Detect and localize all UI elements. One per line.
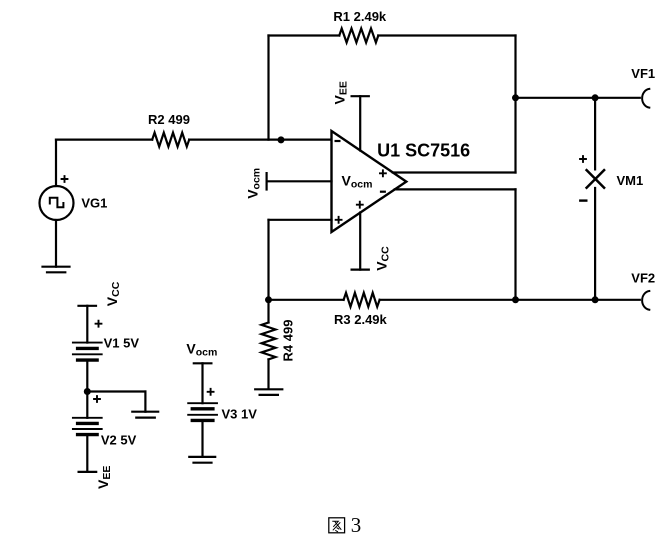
svg-text:R4 499: R4 499 xyxy=(280,320,295,362)
svg-text:VF1: VF1 xyxy=(631,66,655,81)
svg-text:VF2: VF2 xyxy=(631,270,655,285)
wire V3 top stem xyxy=(201,363,203,403)
resistor R4 xyxy=(262,323,276,360)
minus output xyxy=(380,191,386,193)
wire VM1 upper xyxy=(594,98,596,170)
wire noninverting input horizontal xyxy=(269,219,332,221)
svg-text:R1 2.49k: R1 2.49k xyxy=(333,9,387,24)
svg-text:V1 5V: V1 5V xyxy=(104,335,140,350)
svg-text:VG1: VG1 xyxy=(81,196,107,211)
svg-text:V2 5V: V2 5V xyxy=(101,433,137,448)
ground below V3 xyxy=(189,456,215,458)
wire left vertical to R1 xyxy=(267,36,269,140)
power rail Vocm bar of V3 xyxy=(194,362,212,364)
VEE rail bar of U1 xyxy=(352,95,369,97)
plus of VG1 xyxy=(61,175,69,183)
node dot R3 R4 junction xyxy=(265,296,272,303)
wire junction to ground xyxy=(87,390,145,392)
wire - output to right rail xyxy=(395,188,516,190)
svg-text:3: 3 xyxy=(351,513,362,537)
op-amp U1 triangle xyxy=(332,131,407,232)
plus of V2 xyxy=(93,395,101,403)
svg-text:V3 1V: V3 1V xyxy=(222,406,258,421)
wire right vertical from VF1 node to + output xyxy=(514,98,516,173)
wire right vertical - output down xyxy=(514,189,516,299)
wire right vertical from R1 to VF1 node xyxy=(514,36,516,98)
resistor R1 xyxy=(339,29,378,43)
battery V3 xyxy=(188,403,217,420)
svg-text:R3 2.49k: R3 2.49k xyxy=(334,312,388,327)
wire top feedback left segment xyxy=(269,34,340,36)
voltmeter VM1 cross xyxy=(587,170,605,188)
ground below VG1 xyxy=(43,266,70,268)
ground below R4 xyxy=(255,388,282,390)
wire VG1 stem top xyxy=(55,140,57,186)
wire R2 to inverting input xyxy=(189,139,330,141)
wire V2 top stem xyxy=(86,392,88,418)
wire V3 bottom stem xyxy=(201,420,203,457)
node dot VM1 top xyxy=(592,94,599,101)
resistor R3 xyxy=(344,293,380,307)
wire noninverting input vertical xyxy=(267,220,269,300)
plus output xyxy=(379,169,387,177)
svg-text:U1 SC7516: U1 SC7516 xyxy=(377,140,470,160)
Vocm input T-bar terminal xyxy=(266,173,268,189)
source VG1 circle xyxy=(40,186,74,220)
node dot VF1 branch xyxy=(512,94,519,101)
wire Vocm input xyxy=(267,180,332,182)
battery V1 xyxy=(73,343,102,361)
wire VG1 stem bottom xyxy=(55,220,57,267)
minus inverting input xyxy=(335,140,341,142)
node dot VM1 bottom xyxy=(592,296,599,303)
plus of V3 xyxy=(207,388,215,396)
node dot VF2 branch xyxy=(512,296,519,303)
svg-text:R2 499: R2 499 xyxy=(148,112,190,127)
terminal VF2 arc xyxy=(642,291,649,310)
wire VCC stem of U1 xyxy=(359,213,361,270)
wire VEE stem of U1 xyxy=(359,96,361,150)
terminal VF1 arc xyxy=(642,89,649,108)
wire VG1 to R2 xyxy=(56,139,152,141)
wire V2 bottom stem xyxy=(86,435,88,472)
power rail Vcc bar of V1 xyxy=(79,305,97,307)
wire R4 top xyxy=(267,300,269,323)
wire R4 bottom xyxy=(267,359,269,388)
svg-text:VM1: VM1 xyxy=(617,173,644,188)
plus of VM1 xyxy=(579,155,587,163)
wire R3 to right rail xyxy=(380,299,516,301)
wire VM1 lower xyxy=(594,188,596,300)
wire V1 top stem xyxy=(86,306,88,343)
VG1 waveform glyph xyxy=(50,198,64,208)
plus of V1 xyxy=(95,320,103,328)
wire VF1 node to terminal xyxy=(516,97,640,99)
wire VF2 xyxy=(516,299,640,301)
wire + output to right rail xyxy=(393,171,516,173)
resistor R2 xyxy=(152,133,189,147)
ground at V1 V2 junction xyxy=(132,411,158,413)
VCC rail bar of U1 xyxy=(352,269,369,271)
wire top feedback right segment xyxy=(378,34,515,36)
plus noninverting input xyxy=(335,216,343,224)
wire V1 bottom stem xyxy=(86,360,88,391)
plus vcc pin xyxy=(356,201,364,209)
power rail Vee bar of V2 xyxy=(79,471,97,473)
node dot V1 V2 junction xyxy=(84,388,91,395)
caption figure 3 glyph tu xyxy=(329,518,345,533)
node dot R2 to inverting input xyxy=(278,136,285,143)
battery V2 xyxy=(73,418,102,435)
wire R3 node to R3 xyxy=(269,299,344,301)
minus of VM1 xyxy=(579,199,587,201)
